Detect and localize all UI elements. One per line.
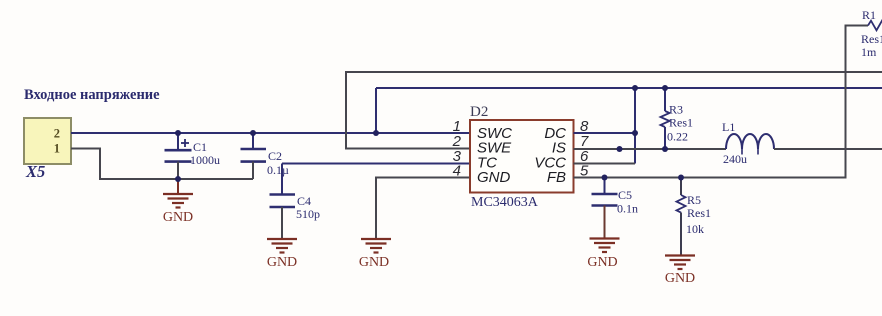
wire X5 pin2 to U1 pin1 (Vin net, y=133): [71, 132, 470, 134]
wire U1 pin7 / IS net to inductor: [574, 148, 727, 150]
wire TC net from C4 to U1 pin3: [282, 164, 470, 195]
svg-text:C1: C1: [193, 140, 207, 154]
wire GND net: U1 pin4 to ground: [376, 178, 470, 240]
svg-text:R5: R5: [687, 193, 701, 207]
svg-text:D2: D2: [470, 104, 488, 120]
inductor L1 labels: [722, 120, 747, 166]
ground symbol at C5: [587, 239, 619, 271]
svg-text:1: 1: [54, 142, 60, 156]
capacitor C2: [241, 133, 267, 179]
capacitor C1: [165, 133, 192, 179]
svg-text:GND: GND: [587, 255, 617, 270]
junction node C2 top: [250, 130, 256, 136]
svg-text:C4: C4: [297, 194, 311, 208]
wire SWE net: U1 pin2 left, up and along top y=72: [346, 72, 882, 149]
svg-text:GND: GND: [477, 169, 511, 186]
capacitor C4: [270, 195, 296, 240]
svg-text:Res1: Res1: [861, 32, 882, 46]
svg-text:240u: 240u: [723, 152, 747, 166]
junction node FB at C5: [602, 175, 608, 181]
wire Vin top rail y=88: [376, 87, 882, 89]
resistor R5 labels: [686, 193, 711, 236]
svg-text:R1: R1: [862, 8, 876, 22]
svg-text:Входное напряжение: Входное напряжение: [24, 87, 160, 103]
wire U1 pin8 to vertical bus: [574, 132, 636, 134]
junction node R3 bottom: [662, 146, 668, 152]
svg-text:MC34063A: MC34063A: [471, 195, 539, 210]
svg-text:L1: L1: [722, 120, 735, 134]
wire FB net: U1 pin5 right, up to R1: [574, 26, 869, 178]
resistor R3: [661, 88, 670, 149]
svg-text:Res1: Res1: [687, 206, 711, 220]
svg-text:510p: 510p: [296, 207, 320, 221]
resistor R3 labels: [667, 103, 693, 144]
junction node C1 top: [175, 130, 181, 136]
capacitor C2 labels: [267, 149, 289, 177]
ground symbol at U1 pin4: [359, 239, 391, 270]
capacitor C5 labels: [617, 188, 638, 216]
svg-text:GND: GND: [359, 255, 389, 270]
resistor R1 (partially cut at right edge): [868, 21, 882, 31]
svg-text:X5: X5: [25, 162, 45, 181]
svg-text:GND: GND: [163, 210, 193, 225]
svg-text:C2: C2: [268, 149, 282, 163]
svg-text:FB: FB: [547, 169, 566, 186]
junction node IS net: [617, 146, 623, 152]
svg-text:10k: 10k: [686, 222, 704, 236]
svg-text:R3: R3: [669, 103, 683, 117]
svg-text:2: 2: [54, 127, 60, 141]
svg-text:0.1n: 0.1n: [617, 202, 638, 216]
inductor L1: [726, 134, 774, 155]
svg-text:0.22: 0.22: [667, 130, 688, 144]
capacitor C1 labels: [190, 140, 220, 167]
svg-text:Res1: Res1: [669, 116, 693, 130]
capacitor C5: [592, 178, 618, 239]
svg-text:C5: C5: [618, 188, 632, 202]
wire from L1 to right edge: [774, 148, 882, 150]
wire vertical x=376 from Vin node up to top rail: [375, 88, 377, 133]
junction node top rail x=665: [662, 85, 668, 91]
junction node top rail x=635: [632, 85, 638, 91]
connector X5 body: [24, 118, 71, 164]
op-amp U1 : IC D2 MC34063A body: [470, 120, 574, 193]
junction node pin8 bus: [632, 130, 638, 136]
svg-text:GND: GND: [665, 271, 695, 286]
wire vertical x=635 from Vin rail to pin6: [634, 88, 636, 164]
wire U1 pin6 to vertical bus: [574, 163, 636, 165]
junction node Vin branch: [373, 130, 379, 136]
resistor R1 labels: [861, 8, 882, 59]
wire X5 pin1 down to ground rail: [71, 149, 253, 180]
capacitor C4 labels: [296, 194, 320, 221]
junction node ground rail at C1: [175, 176, 181, 182]
junction node FB at R5: [678, 175, 684, 181]
resistor R5: [677, 178, 686, 256]
svg-text:1000u: 1000u: [190, 153, 220, 167]
ground symbol at C4: [267, 239, 297, 270]
svg-text:GND: GND: [267, 255, 297, 270]
svg-text:0.1µ: 0.1µ: [267, 163, 289, 177]
ground symbol at R5: [665, 256, 695, 287]
svg-text:1m: 1m: [861, 45, 877, 59]
ground symbol at C1: [163, 179, 193, 225]
svg-text:4: 4: [453, 163, 461, 180]
